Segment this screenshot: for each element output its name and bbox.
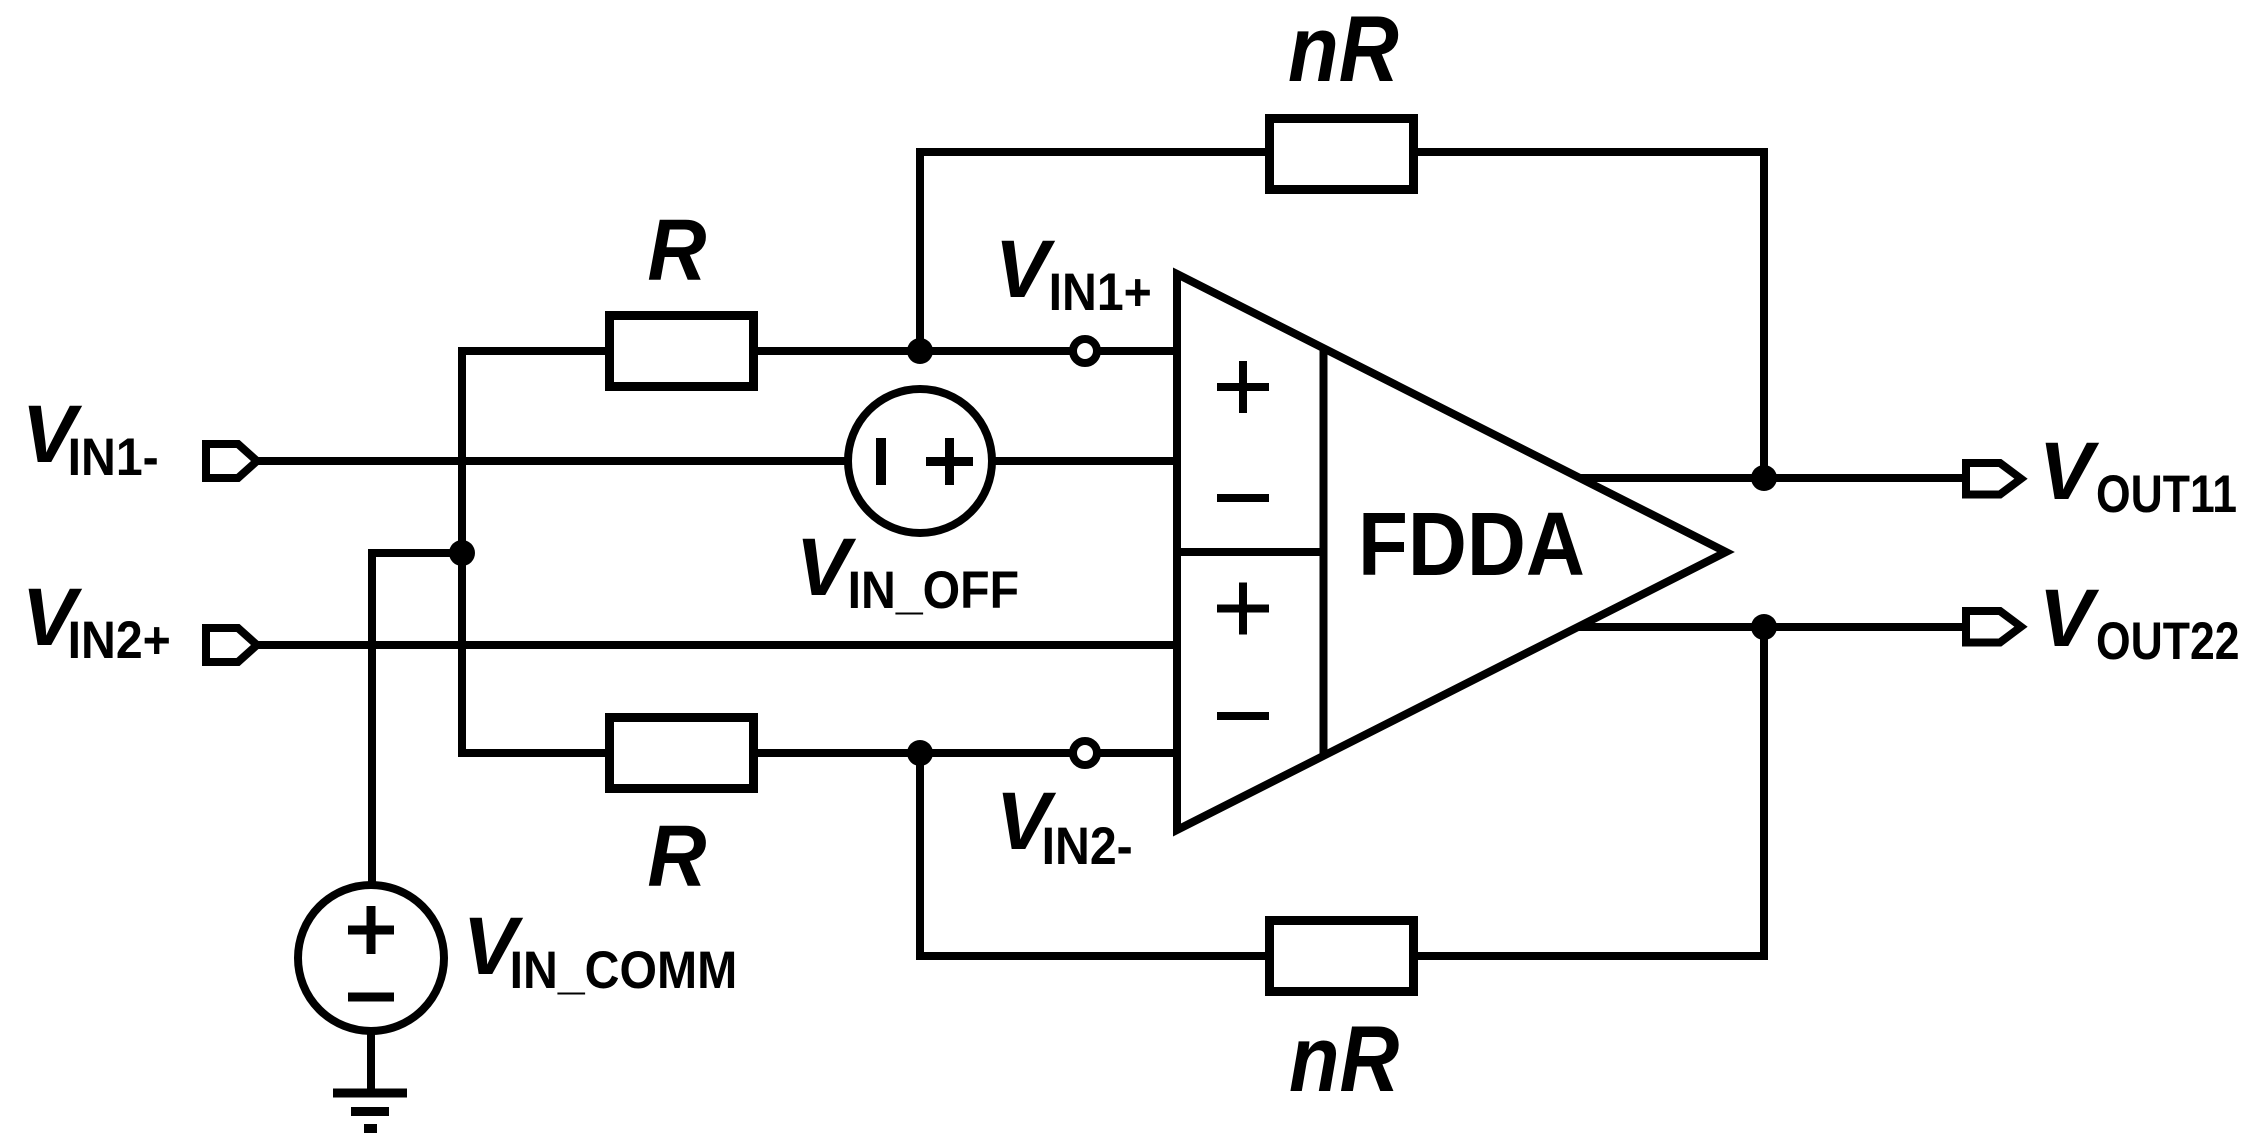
svg-text:FDDA: FDDA bbox=[1358, 494, 1585, 595]
svg-text:IN_OFF: IN_OFF bbox=[848, 560, 1019, 620]
FDDA inner vertical bbox=[1320, 348, 1328, 756]
resistor nR (top) bbox=[1270, 119, 1414, 190]
junction node C (bottom R output) bbox=[907, 740, 933, 766]
junction node A (top R output) bbox=[907, 338, 933, 364]
op-amp FDDA bbox=[1177, 274, 1726, 830]
wire: VIN_COMM vertical bbox=[368, 549, 376, 885]
svg-text:R: R bbox=[647, 202, 706, 299]
svg-text:IN2-: IN2- bbox=[1042, 816, 1133, 876]
FDDA pin + (upper) bbox=[1217, 361, 1269, 413]
label VIN_OFF bbox=[796, 522, 1019, 620]
wire: VIN1- to offset source bbox=[257, 457, 1177, 465]
junction node VOUT11 bbox=[1751, 465, 1777, 491]
label VOUT22 bbox=[2039, 573, 2240, 671]
svg-text:OUT22: OUT22 bbox=[2096, 612, 2239, 670]
svg-text:IN_COMM: IN_COMM bbox=[510, 940, 738, 1000]
wire: node A up to top feedback bbox=[916, 148, 924, 351]
FDDA pin - (lower) bbox=[1217, 712, 1269, 720]
resistor R (bottom) bbox=[610, 718, 754, 789]
wire: row4 right (R bottom to FDDA - input) bbox=[756, 749, 1177, 757]
label VIN1- bbox=[22, 389, 159, 487]
junction node B bbox=[449, 540, 475, 566]
label VIN1+ bbox=[995, 224, 1152, 322]
svg-text:V: V bbox=[2039, 573, 2100, 664]
svg-text:nR: nR bbox=[1289, 1006, 1399, 1111]
wire: left vertical joining R resistors bbox=[458, 347, 466, 757]
FDDA pin - (upper) bbox=[1217, 494, 1269, 502]
label VIN2- bbox=[996, 776, 1133, 876]
voltage source VIN_OFF bbox=[848, 389, 992, 533]
wire: bottom feedback left segment bbox=[916, 952, 1267, 960]
resistor nR (bottom) bbox=[1270, 921, 1414, 992]
FDDA pin + (lower) bbox=[1217, 583, 1269, 635]
wire: node C down to bottom feedback bbox=[916, 753, 924, 960]
label VIN_COMM bbox=[463, 901, 738, 1000]
wire: top feedback left segment bbox=[916, 148, 1267, 156]
wire: right vertical to VOUT11 node bbox=[1760, 148, 1768, 478]
wire: row1 right (R top to FDDA + input) bbox=[756, 347, 1177, 355]
wire: row1 left (to resistor R top) bbox=[462, 347, 607, 355]
wire: right vertical from VOUT22 node bbox=[1760, 627, 1768, 960]
wire: bottom feedback right segment bbox=[1416, 952, 1768, 960]
wire: VIN_COMM to ground bbox=[367, 1031, 375, 1092]
voltage source VIN_COMM bbox=[298, 885, 444, 1031]
svg-text:V: V bbox=[2039, 426, 2100, 517]
input terminal VIN2+ bbox=[206, 628, 257, 662]
input terminal VIN1- bbox=[206, 444, 257, 478]
wire: VOUT22 output bbox=[1578, 623, 1966, 631]
output terminal VOUT11 bbox=[1966, 463, 2021, 495]
label VOUT11 bbox=[2039, 426, 2237, 524]
output terminal VOUT22 bbox=[1966, 611, 2021, 643]
svg-text:R: R bbox=[647, 808, 706, 905]
open circle node VIN2- bbox=[1073, 741, 1097, 765]
wire: VOUT11 output bbox=[1579, 474, 1966, 482]
resistor R (top) bbox=[610, 316, 754, 387]
wire: link from VIN_COMM branch to node B bbox=[372, 549, 462, 557]
wire: VIN2+ to FDDA lower + input bbox=[257, 641, 1177, 649]
svg-text:IN1+: IN1+ bbox=[1049, 262, 1152, 322]
wire: top feedback right segment bbox=[1416, 148, 1768, 156]
svg-text:OUT11: OUT11 bbox=[2096, 465, 2237, 523]
svg-text:nR: nR bbox=[1288, 0, 1399, 101]
ground bbox=[333, 1089, 407, 1134]
svg-text:IN1-: IN1- bbox=[68, 427, 159, 487]
open circle node VIN1+ bbox=[1073, 339, 1097, 363]
label VIN2+ bbox=[22, 572, 171, 670]
FDDA input divider bbox=[1177, 548, 1324, 556]
wire: row4 left (to resistor R bottom) bbox=[462, 749, 607, 757]
junction node VOUT22 bbox=[1751, 614, 1777, 640]
svg-text:V: V bbox=[995, 224, 1056, 315]
svg-text:IN2+: IN2+ bbox=[68, 610, 171, 670]
